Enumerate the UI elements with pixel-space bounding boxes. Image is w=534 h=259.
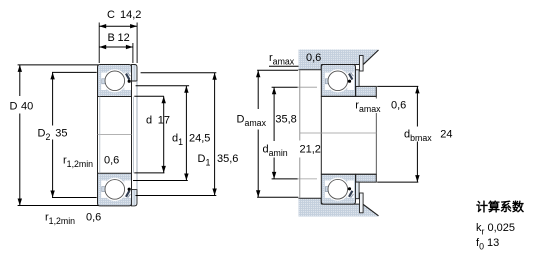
svg-text:B: B	[108, 32, 115, 44]
bearing top flinger tab	[132, 65, 138, 82]
dim damin witness top	[272, 86, 317, 88]
dim D witness top	[18, 64, 99, 66]
label ramax shaft	[355, 100, 406, 114]
snap ring bottom	[360, 193, 364, 213]
dim d1 witness top	[136, 85, 190, 87]
bearing left face silhouette	[320, 96, 322, 174]
shaft seat line top	[321, 95, 376, 97]
dim dbmax witness top	[377, 85, 418, 87]
snap ring top	[360, 56, 364, 72]
bore chamfer silhouette right	[133, 97, 135, 174]
label dbmax 24	[404, 129, 453, 143]
ball groove top left fig	[103, 69, 126, 92]
top seal right dark	[124, 73, 131, 91]
tab silhouette line	[136, 81, 138, 189]
svg-text:12: 12	[118, 32, 130, 44]
flinger bottom right fig	[356, 182, 360, 199]
dim dbmax witness bottom	[377, 181, 418, 183]
dim C witness right	[136, 23, 138, 64]
bore chamfer silhouette left	[99, 97, 101, 174]
bore silhouette line left	[97, 97, 99, 174]
svg-text:计算系数: 计算系数	[476, 199, 525, 214]
bore silhouette line right	[131, 97, 133, 174]
svg-text:35,6: 35,6	[217, 153, 238, 165]
dim C witness left	[98, 23, 100, 64]
label r12min top	[63, 155, 119, 169]
bearing top half-section body	[98, 65, 132, 97]
dim D2 witness bottom	[52, 197, 97, 199]
housing top block	[299, 50, 379, 70]
top seal groove white notch left	[101, 73, 106, 91]
svg-text:14,2: 14,2	[120, 9, 141, 21]
shoulder face silhouette	[375, 86, 377, 182]
bottom seal groove white notch left	[101, 180, 106, 198]
svg-text:0,6: 0,6	[306, 52, 321, 64]
label ramax top + leader	[269, 52, 321, 66]
bottom seal lip dot	[128, 188, 131, 191]
shaft shoulder bottom	[356, 174, 377, 182]
label Damax 35,8	[237, 114, 297, 128]
dim d1 line	[184, 86, 188, 181]
label d 17	[146, 115, 170, 127]
shaft seat line bottom	[321, 173, 376, 175]
centerline right fig	[300, 132, 377, 134]
label D1 35,6	[198, 153, 239, 167]
dim D2 witness top	[52, 71, 97, 73]
svg-text:21,2: 21,2	[300, 144, 321, 156]
svg-text:35,8: 35,8	[275, 114, 296, 126]
dim D1 line	[212, 73, 216, 196]
svg-text:0,6: 0,6	[391, 100, 406, 112]
svg-text:C: C	[107, 9, 115, 21]
svg-text:0,6: 0,6	[104, 155, 119, 167]
dim B witness right	[132, 43, 134, 63]
dim B line	[99, 45, 133, 49]
label C 14,2	[107, 9, 141, 21]
ball groove bottom left fig	[103, 178, 126, 201]
dim Damax line	[256, 70, 260, 197]
label damin 21,2	[263, 144, 321, 158]
label B 12	[108, 32, 130, 44]
dim d witness bottom	[134, 172, 164, 174]
svg-text:17: 17	[158, 115, 170, 127]
svg-text:40: 40	[21, 101, 33, 113]
dim D1 witness top	[141, 72, 217, 74]
label r12min bottom	[45, 212, 101, 226]
dim d1 witness bottom	[133, 180, 188, 182]
shaft shoulder top	[356, 86, 377, 96]
svg-text:0,6: 0,6	[86, 212, 101, 224]
dim dbmax line	[415, 86, 419, 182]
dim damin line	[272, 87, 276, 179]
bearing top half right fig	[321, 65, 355, 97]
dim D1 witness bottom	[136, 195, 217, 197]
svg-text:35: 35	[55, 128, 67, 140]
label D2 35	[38, 128, 68, 142]
housing bore silhouette	[299, 70, 301, 199]
centerline left fig	[98, 134, 132, 136]
svg-text:24,5: 24,5	[189, 133, 210, 145]
svg-text:D: D	[10, 101, 18, 113]
dim Damax witness top	[257, 69, 298, 71]
label d1 24,5	[172, 133, 210, 147]
dim D witness bottom	[18, 205, 99, 207]
label D 40	[10, 101, 34, 113]
bearing bottom half-section body	[98, 173, 132, 206]
ball top left fig	[105, 71, 125, 91]
dim d line	[162, 96, 166, 173]
bottom seal right dark	[124, 180, 131, 198]
dim damin witness bottom	[272, 178, 317, 180]
ball bottom left fig	[105, 180, 125, 200]
flinger top right fig	[356, 70, 360, 87]
dim D2 line	[50, 72, 54, 197]
bearing bottom flinger tab	[132, 189, 138, 206]
housing bottom block	[299, 198, 379, 216]
dim D line	[18, 65, 22, 206]
top seal lip dot	[128, 80, 131, 83]
dim Damax witness bottom	[257, 196, 298, 198]
svg-text:24: 24	[440, 129, 452, 141]
bearing bottom half right fig	[321, 174, 355, 204]
svg-text:d: d	[146, 115, 152, 127]
dim C line	[99, 24, 137, 28]
dim d witness top	[134, 95, 164, 97]
